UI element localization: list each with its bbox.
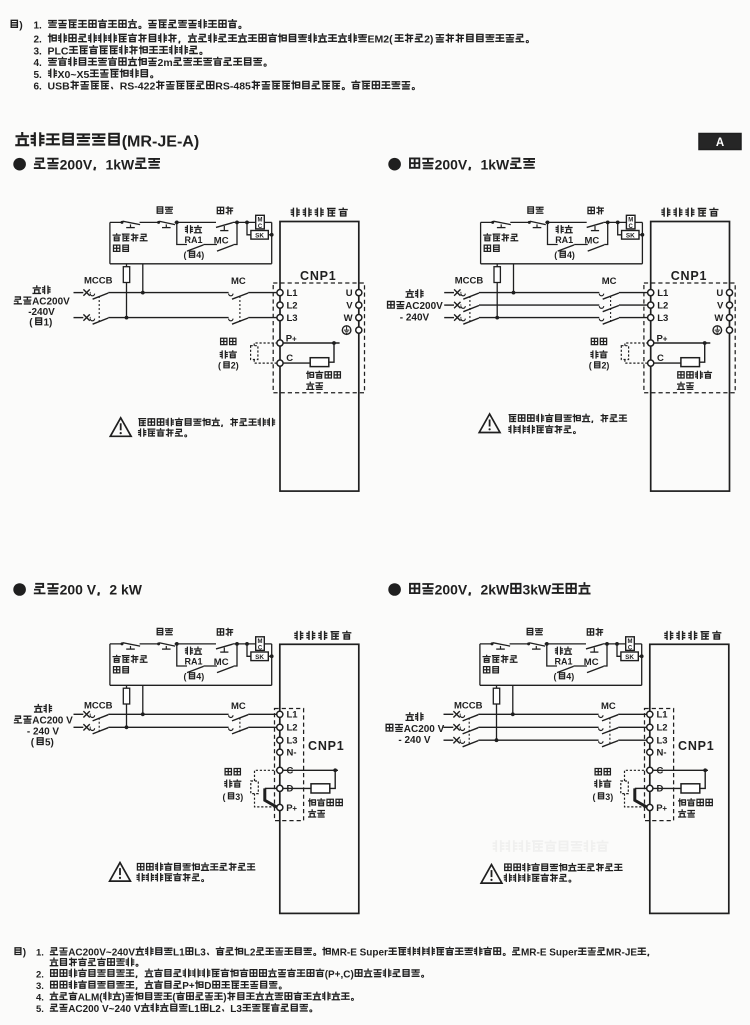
label 伺服放大器 [665, 631, 721, 639]
svg-text:M: M [258, 218, 263, 224]
wire: supply phase 2 [74, 317, 84, 319]
warning text [504, 864, 622, 883]
svg-text:MCCB: MCCB [455, 276, 484, 287]
wire: control loop left rail [479, 644, 481, 685]
label 关闭 [157, 628, 172, 634]
label (注4) [554, 250, 575, 260]
MCCB pole linkage (dashed) [469, 296, 471, 323]
wire: self-hold branch [547, 644, 607, 666]
svg-text:N-: N- [657, 748, 667, 759]
svg-text:(: ( [184, 250, 187, 260]
wire: control loop left rail [109, 644, 111, 685]
off pushbutton 关闭 (NC) [157, 221, 175, 228]
wire: control return to phase L1 [141, 685, 145, 716]
label power source 电源 [14, 705, 73, 749]
svg-text:(: ( [184, 672, 187, 682]
regenerative option (dashed) [251, 770, 277, 807]
emergency stop switch (NC) [491, 642, 511, 649]
svg-text:MC: MC [214, 657, 229, 668]
svg-text:+: + [292, 804, 297, 813]
wire: MCCB to MC pole 2 [479, 304, 599, 306]
svg-text:-240V: -240V [28, 307, 55, 318]
alarm relay contact RA1 (NO) [187, 245, 204, 251]
svg-text:MC: MC [601, 701, 616, 712]
circuit breaker MCCB pole 2 [461, 306, 479, 312]
terminal L1 [648, 288, 669, 299]
warning text [137, 863, 255, 882]
label resistor 再生选件 [677, 371, 711, 389]
surge absorber SK [247, 222, 274, 239]
svg-text:MR-JE: MR-JE [606, 948, 637, 959]
connector CNP1 (dashed outline) [273, 283, 364, 393]
supply disconnect mark phase 2 [454, 302, 460, 308]
wire: supply phase 1 [444, 292, 454, 294]
svg-text:1.: 1. [34, 20, 43, 31]
wire: MC to terminal 2 [248, 726, 277, 728]
svg-text:): ) [201, 672, 204, 682]
wire: supply phase 2 [74, 726, 84, 728]
svg-text:V: V [346, 300, 353, 311]
svg-text:L3: L3 [194, 948, 206, 959]
supply disconnect mark phase 2 [83, 314, 89, 320]
wire: control loop bottom rail [481, 263, 643, 265]
label 关闭 [157, 207, 172, 213]
svg-text:): ) [201, 250, 204, 260]
svg-text:L2: L2 [287, 300, 298, 311]
svg-text:M: M [628, 218, 633, 224]
svg-text:CNP1: CNP1 [678, 739, 715, 753]
terminal C [277, 766, 294, 777]
wire: diagram3 control loop top rail [110, 643, 256, 645]
svg-text:L2: L2 [657, 300, 668, 311]
regenerative option (dashed) [251, 343, 277, 363]
wire: phase 3 to MCCB [459, 739, 462, 741]
built-in regenerative resistor [681, 358, 700, 367]
terminal P+ [277, 803, 298, 814]
wire: diagram2 control loop top rail [481, 221, 627, 223]
svg-text:MCCB: MCCB [84, 276, 113, 287]
svg-text:5.: 5. [34, 70, 43, 81]
alarm relay contact RA1 (NO) [187, 666, 204, 672]
svg-text:(: ( [223, 792, 226, 802]
self-hold contact MC (NO) [588, 245, 605, 251]
circuit breaker MCCB pole 2 [460, 728, 478, 734]
svg-text:C: C [657, 766, 664, 777]
surge absorber SK [247, 644, 274, 661]
svg-text:): ) [122, 992, 125, 1003]
built-in regenerative resistor [310, 358, 329, 367]
svg-text:MC: MC [214, 235, 229, 246]
surge absorber SK [617, 644, 644, 661]
wire: MC to terminal 1 [248, 713, 277, 715]
wire: control return to phase L1 [511, 685, 515, 716]
regenerative option (dashed) [621, 343, 647, 363]
wire: P+ to resistor junction [654, 341, 711, 345]
servo amplifier box (diagram4 三相200V 2-3kW) [650, 644, 729, 913]
svg-text:MR-E Super: MR-E Super [521, 948, 578, 959]
wire: control loop bottom rail [110, 684, 272, 686]
svg-text:C: C [258, 646, 263, 652]
svg-text:2m: 2m [158, 57, 173, 69]
label 再生选件 注2 [589, 338, 610, 370]
wire: MCCB to MC pole 1 [108, 292, 228, 294]
wire: phase 2 to MCCB [460, 304, 463, 306]
svg-text:SK: SK [255, 232, 264, 239]
terminal L1 [647, 710, 669, 721]
wire: control return to phase L1 [512, 264, 516, 295]
svg-text:RA1: RA1 [555, 657, 573, 667]
label 再生选件 注2 [218, 338, 239, 370]
svg-text:200V: 200V [60, 156, 93, 172]
svg-text:(MR-JE-A): (MR-JE-A) [122, 132, 200, 150]
label power source 电源 [386, 713, 444, 746]
label 紧急停止开关 [483, 655, 517, 673]
svg-text:L1: L1 [657, 710, 669, 721]
wire: supply phase 3 [444, 739, 454, 741]
svg-text:AC200 V~240 V: AC200 V~240 V [68, 1004, 141, 1015]
svg-text:): ) [51, 738, 54, 749]
MC pole linkage (dashed) [239, 296, 241, 323]
built-in regenerative resistor [681, 784, 700, 793]
bullet title 三相200V，1kW以下 [388, 156, 534, 172]
terminal L3 [647, 736, 668, 747]
wire: self-hold branch [177, 644, 237, 666]
svg-text:MC: MC [231, 701, 246, 712]
label 故障 RA1 [185, 647, 203, 666]
svg-text:): ) [572, 250, 575, 260]
svg-text:- 240V: - 240V [400, 312, 430, 323]
svg-text:3.: 3. [34, 46, 43, 57]
svg-text:5.: 5. [36, 1004, 44, 1015]
contactor main contact MC pole 1 [229, 715, 249, 721]
label 开启 [217, 207, 232, 214]
label 关闭 [528, 207, 543, 213]
wire: phase 1 to MCCB [89, 292, 92, 294]
label 故障 RA1 [555, 226, 573, 245]
node: junction after off button [545, 642, 549, 646]
wire: MC coil to right rail [264, 643, 271, 645]
supply disconnect mark phase 1 [83, 711, 89, 717]
circuit breaker MCCB pole 1 [90, 293, 108, 299]
svg-text:L2: L2 [657, 723, 668, 734]
fuse in control supply [123, 685, 129, 729]
svg-text:RA1: RA1 [555, 235, 573, 245]
terminal L2 [648, 300, 669, 311]
svg-text:200 V: 200 V [60, 582, 97, 598]
svg-text:4.: 4. [34, 58, 43, 69]
on pushbutton 开启 (NO) [587, 223, 604, 231]
svg-text:): ) [571, 672, 574, 682]
circuit breaker MCCB pole 1 [460, 715, 478, 721]
svg-text:200V: 200V [435, 156, 468, 172]
label 紧急停止开关 [113, 655, 147, 673]
terminal L1 [277, 288, 298, 299]
node: junction after off button [546, 221, 550, 225]
svg-text:3.: 3. [36, 981, 44, 992]
ground symbol [713, 326, 722, 335]
contactor main contact MC pole 3 [599, 741, 619, 747]
contactor main contact MC pole 2 [599, 728, 619, 734]
wire: phase 3 to MCCB [460, 317, 463, 319]
contactor main contact MC pole 1 [599, 293, 619, 299]
wire: C to junction [653, 768, 708, 772]
svg-text:(: ( [593, 792, 596, 802]
output terminal U [716, 288, 732, 299]
bottom notes block [15, 947, 649, 1015]
wire: control loop bottom rail [110, 263, 272, 265]
circuit breaker MCCB pole 2 [90, 728, 108, 734]
svg-text:W: W [714, 313, 723, 324]
wire: phase 2 to MCCB [89, 317, 92, 319]
fuse in control supply [123, 264, 129, 320]
svg-text:SK: SK [625, 654, 634, 661]
output terminal V [717, 300, 733, 311]
wire: supply phase 3 [444, 317, 454, 319]
svg-text:AC200V~240V: AC200V~240V [68, 948, 135, 959]
MCCB pole linkage (dashed) [98, 296, 100, 323]
surge absorber SK [618, 222, 645, 239]
supply disconnect mark phase 1 [453, 711, 459, 717]
svg-text:L1: L1 [173, 948, 185, 959]
bullet title 三相200V，2kW及3kW的情况 [388, 582, 589, 598]
bullet title 单相200V，1kW以下 [13, 156, 159, 172]
svg-text:L1: L1 [287, 710, 299, 721]
contactor main contact MC pole 2 [229, 318, 249, 324]
node: junction before MC coil [605, 642, 609, 646]
supply disconnect mark phase 3 [454, 314, 460, 320]
terminal C [277, 353, 293, 366]
svg-text:C: C [628, 646, 633, 652]
warning triangle (diagram3) [110, 863, 131, 882]
svg-text:CNP1: CNP1 [300, 269, 337, 283]
svg-text:(P+,C): (P+,C) [325, 969, 354, 980]
svg-text:CNP1: CNP1 [671, 269, 708, 283]
wire: control return to phase L1 [141, 264, 145, 295]
short-circuit bar P+ to D [265, 788, 277, 807]
circuit breaker MCCB pole 1 [461, 293, 479, 299]
self-hold contact MC (NO) [587, 666, 604, 672]
circuit breaker MCCB pole 2 [90, 318, 108, 324]
svg-text:2kW: 2kW [481, 582, 511, 598]
wire: supply phase 2 [444, 304, 454, 306]
svg-text:MC: MC [585, 235, 600, 246]
MC pole linkage (dashed) [609, 718, 611, 746]
wire: junction down to resistor [329, 343, 334, 362]
on pushbutton 开启 (NO) [586, 644, 603, 652]
MCCB pole linkage (dashed) [98, 718, 100, 733]
warning text [509, 414, 627, 433]
circuit breaker MCCB pole 3 [460, 741, 478, 747]
svg-text:1.: 1. [36, 948, 44, 959]
wire: control loop bottom rail [480, 684, 642, 686]
label (注4) [554, 672, 575, 682]
connector CNP1 (dashed outline) [275, 709, 304, 821]
terminal L3 [277, 313, 298, 324]
label 开启 [587, 628, 602, 635]
wire: MC coil to right rail [635, 221, 642, 223]
contactor main contact MC pole 3 [599, 318, 619, 324]
svg-text:L1: L1 [188, 1004, 200, 1015]
svg-text:U: U [346, 288, 353, 299]
svg-text:(: ( [554, 250, 557, 260]
label resistor 内置再生 [307, 371, 341, 389]
terminal P+ [277, 333, 297, 346]
svg-text:L2: L2 [209, 1004, 221, 1015]
svg-text:X0~X5: X0~X5 [58, 69, 90, 81]
self-hold contact MC (NO) [217, 666, 234, 672]
svg-text:D: D [287, 784, 294, 795]
wire: MCCB to MC pole 3 [479, 317, 599, 319]
MC pole linkage (dashed) [610, 296, 612, 323]
wire: phase 1 to MCCB [460, 292, 463, 294]
svg-text:RS-485: RS-485 [215, 81, 251, 93]
output terminal W [714, 313, 732, 324]
terminal C [648, 353, 664, 366]
warning triangle (diagram4) [481, 865, 502, 884]
svg-text:(: ( [554, 672, 557, 682]
emergency stop switch (NC) [121, 642, 141, 649]
svg-text:M: M [628, 639, 633, 645]
svg-text:CNP1: CNP1 [308, 739, 345, 753]
svg-text:L1: L1 [287, 288, 299, 299]
svg-text:- 240 V: - 240 V [398, 735, 430, 746]
svg-text:2 kW: 2 kW [109, 582, 142, 598]
emergency stop switch (NC) [491, 221, 511, 228]
svg-text:6.: 6. [34, 82, 43, 93]
svg-text:L3: L3 [657, 313, 668, 324]
supply disconnect mark phase 2 [453, 724, 459, 730]
label 紧急停止开关 [484, 234, 518, 252]
wire: junction down to resistor [700, 770, 705, 788]
wire: phase 2 to MCCB [459, 726, 462, 728]
svg-text:): ) [23, 948, 26, 959]
faint print bleed-through [493, 841, 607, 851]
svg-text:): ) [240, 792, 243, 802]
label 伺服放大器 [662, 208, 718, 216]
label 伺服放大器 [291, 208, 347, 216]
svg-text:4.: 4. [36, 992, 44, 1003]
svg-text:MCCB: MCCB [84, 700, 113, 711]
node: junction after off button [175, 642, 179, 646]
svg-text:AC200V: AC200V [405, 301, 443, 312]
wire: MC to terminal 1 [619, 292, 648, 294]
svg-text:): ) [610, 792, 613, 802]
svg-text:USB: USB [48, 81, 71, 93]
svg-text:C: C [629, 224, 634, 230]
svg-text:(: ( [389, 34, 393, 46]
on pushbutton 开启 (NO) [216, 644, 233, 652]
wire: control loop right rail [641, 222, 643, 263]
svg-text:AC200 V: AC200 V [404, 724, 445, 735]
terminal C [647, 766, 664, 777]
svg-text:AC200 V: AC200 V [32, 716, 73, 727]
label (注4) [184, 250, 205, 260]
short-circuit bar P+ to D [635, 788, 647, 807]
terminal D [647, 784, 664, 795]
label 开启 [217, 628, 232, 635]
wire: MCCB to MC pole 2 [108, 317, 228, 319]
label 伺服放大器 [295, 631, 351, 639]
off pushbutton 关闭 (NC) [157, 642, 175, 649]
svg-text:MCCB: MCCB [454, 700, 483, 711]
node: junction after off button [175, 221, 179, 225]
svg-text:A: A [716, 137, 724, 149]
svg-text:RA1: RA1 [185, 235, 203, 245]
connector CNP1 (dashed outline) [644, 283, 735, 393]
svg-text:L3: L3 [287, 736, 298, 747]
supply disconnect mark phase 1 [454, 289, 460, 295]
wire: MC to terminal 3 [619, 317, 648, 319]
section title 电源的连接实例(MR-JE-A) [16, 132, 199, 150]
wire: MC coil to right rail [634, 643, 641, 645]
wire: MCCB to MC pole 1 [108, 713, 228, 715]
svg-text:U: U [716, 288, 723, 299]
svg-text:): ) [606, 361, 609, 371]
svg-text:N-: N- [287, 748, 297, 759]
emergency stop switch (NC) [121, 221, 141, 228]
label 再生选件 (注3) [223, 768, 244, 801]
svg-text:ALM(: ALM( [78, 992, 104, 1003]
contactor coil MC [626, 637, 635, 652]
node: junction before MC coil [235, 221, 239, 225]
svg-text:MC: MC [231, 276, 246, 287]
self-hold contact MC (NO) [217, 245, 234, 251]
contactor coil MC [256, 215, 265, 230]
top notes block [11, 19, 528, 92]
label 开启 [588, 207, 603, 214]
wire: supply phase 1 [74, 713, 84, 715]
label 故障 RA1 [555, 647, 573, 666]
wire: MC to terminal 2 [618, 726, 647, 728]
wire: phase 1 to MCCB [89, 713, 92, 715]
wire: diagram4 control loop top rail [480, 643, 626, 645]
svg-text:2.: 2. [36, 969, 44, 980]
wire: MC to terminal 1 [248, 292, 277, 294]
svg-text:AC200V: AC200V [32, 297, 70, 308]
output terminal W [344, 313, 362, 324]
svg-text:RS-422: RS-422 [120, 81, 156, 93]
svg-text:): ) [430, 34, 434, 46]
wire: supply phase 2 [444, 726, 454, 728]
wire: control loop right rail [271, 222, 273, 263]
warning text [139, 418, 275, 437]
servo amplifier box (diagram1 单相200V 1kW) [280, 222, 359, 492]
bullet title 单相200 V，2 kW [13, 582, 142, 598]
svg-text:3kW: 3kW [523, 582, 553, 598]
svg-text:C: C [258, 224, 263, 230]
svg-text:(: ( [589, 361, 592, 371]
wire: MCCB to MC pole 3 [478, 739, 598, 741]
label 再生选件 (注3) [593, 768, 614, 801]
off pushbutton 关闭 (NC) [528, 221, 546, 228]
wire: P+ to resistor junction [283, 341, 340, 345]
wire: C to resistor [654, 362, 681, 364]
svg-text:D: D [657, 784, 664, 795]
label 关闭 [527, 628, 542, 634]
label 内置再生电阻 [309, 799, 343, 817]
connector CNP1 (dashed outline) [645, 709, 674, 821]
output terminal V [346, 300, 362, 311]
label 故障 RA1 [185, 226, 203, 245]
circuit breaker MCCB pole 1 [90, 715, 108, 721]
label power source 电源 [14, 286, 70, 329]
wire: self-hold branch [177, 222, 237, 244]
MC pole linkage (dashed) [239, 718, 241, 733]
svg-text:RA1: RA1 [185, 657, 203, 667]
warning triangle (diagram1) [110, 418, 131, 437]
svg-text:W: W [344, 313, 353, 324]
alarm relay contact RA1 (NO) [557, 666, 574, 672]
